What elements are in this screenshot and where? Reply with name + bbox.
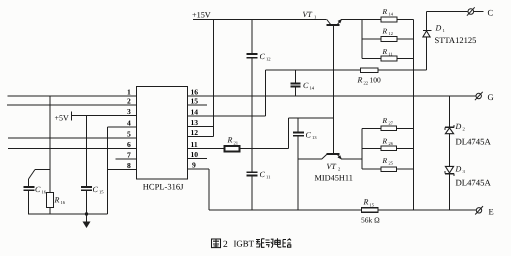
wire to VT bases [289, 117, 334, 119]
resistor R21 [225, 146, 240, 152]
svg-text:26: 26 [389, 141, 394, 146]
diode D3 triangle [445, 166, 453, 173]
wire right bracket vertical full [413, 20, 415, 211]
wire diagonal bend to C16 [29, 170, 36, 180]
svg-text:12: 12 [389, 31, 393, 36]
resistor R11 leads [362, 58, 381, 60]
glyph 图 [212, 239, 221, 248]
wire pin11 to R21 [188, 148, 225, 150]
svg-text:E: E [489, 206, 494, 216]
svg-text:STTA12125: STTA12125 [435, 35, 477, 45]
wire C16 top lead [28, 179, 30, 187]
glyph 路 [283, 239, 291, 247]
svg-text:DL4745A: DL4745A [456, 136, 492, 146]
svg-text:C: C [306, 131, 312, 140]
wire C14 bottom lead [295, 87, 297, 96]
capacitor C13 top lead [297, 118, 299, 132]
resistor R14 [381, 17, 397, 22]
capacitor C15 [81, 186, 92, 188]
svg-text:D: D [455, 165, 462, 174]
svg-text:13: 13 [191, 118, 199, 127]
svg-text:R: R [382, 7, 388, 16]
pin numbers left [127, 88, 131, 171]
resistor R27 [381, 126, 397, 131]
+5V supply tick [71, 112, 73, 121]
wire ground stub [86, 214, 88, 222]
wire R21 right lead [240, 148, 289, 150]
svg-text:R: R [382, 156, 388, 165]
svg-text:R: R [357, 76, 363, 85]
wire vertical pin4 down to ground rail [107, 127, 109, 214]
wire resistor R16 bottom lead [49, 208, 51, 215]
svg-text:12: 12 [266, 57, 271, 62]
svg-text:27: 27 [389, 121, 394, 126]
svg-text:6: 6 [127, 140, 131, 149]
caption 图2 IGBT 驱动电路 [212, 239, 221, 248]
resistor R25 leads [362, 168, 381, 170]
svg-text:22: 22 [364, 81, 369, 86]
wire ground rail bottom left [28, 213, 108, 215]
glyph 驱 [256, 239, 265, 248]
svg-text:1: 1 [314, 15, 317, 20]
svg-text:12: 12 [191, 128, 199, 137]
transistor Q1 VT1 diagonals and arrow [327, 20, 331, 25]
svg-text:R: R [382, 47, 388, 56]
resistor R16 [47, 193, 54, 208]
resistor R14 leads [362, 19, 381, 21]
wire C after terminal circle [474, 11, 484, 13]
svg-text:16: 16 [191, 88, 199, 97]
svg-text:DL4745A: DL4745A [456, 177, 492, 187]
wire pin9 [188, 168, 210, 170]
resistor R26 [381, 146, 397, 151]
wire corner up [288, 118, 290, 149]
svg-text:+5V: +5V [55, 113, 70, 122]
wire lower bank left bracket [361, 128, 363, 169]
svg-text:2: 2 [223, 240, 228, 250]
svg-text:C: C [303, 81, 309, 90]
wire bend horizontal to capacitor C16 [35, 169, 50, 171]
resistor R25 [381, 167, 397, 172]
svg-text:7: 7 [127, 151, 131, 160]
resistor R15 56k [362, 208, 379, 213]
svg-text:R: R [54, 196, 60, 205]
svg-text:2: 2 [463, 127, 466, 132]
resistor R12 leads [362, 38, 381, 40]
resistor R26 leads [362, 147, 381, 149]
wire VT1 emitter to top bank [341, 19, 362, 21]
terminal G circle and slash [476, 93, 481, 98]
svg-text:15: 15 [191, 97, 199, 106]
resistor R12 [381, 37, 397, 42]
svg-text:D: D [435, 24, 442, 33]
svg-text:MID45H11: MID45H11 [315, 174, 353, 183]
wire VT1 base / VT2 base vertical [333, 25, 335, 154]
svg-text:+15V: +15V [192, 11, 211, 20]
svg-text:11: 11 [266, 175, 271, 180]
wire D3 to emitter rail [449, 174, 451, 210]
svg-text:16: 16 [42, 190, 47, 195]
transistor Q2 VT2 base bar [327, 153, 340, 155]
svg-text:25: 25 [389, 161, 394, 166]
svg-text:3: 3 [463, 169, 466, 174]
svg-text:C: C [93, 185, 99, 194]
diode D3 cathode bar [445, 173, 454, 175]
capacitor C14 [291, 83, 301, 85]
diode D2 triangle [445, 128, 453, 134]
svg-text:5: 5 [127, 130, 131, 139]
wire C15 bottom lead [86, 191, 88, 214]
wire vertical rail to C12 [251, 20, 253, 54]
wire pin9 vertical [208, 169, 210, 210]
wire emitter rail right of R15 [378, 209, 477, 211]
wire input 1 [8, 95, 137, 97]
resistor R11 [381, 56, 397, 61]
svg-text:3: 3 [127, 107, 131, 116]
wire pin14 [188, 115, 266, 117]
wire DESAT vertical jog [265, 70, 267, 116]
wire pin16 / G line [188, 95, 477, 97]
terminal C circle and slash [468, 9, 474, 15]
svg-text:9: 9 [192, 161, 196, 170]
wire C16 bottom lead [28, 191, 30, 214]
capacitor C13 [293, 131, 304, 133]
wire input 2 [7, 104, 137, 106]
wire diode anode lead [426, 37, 428, 70]
svg-text:21: 21 [234, 141, 239, 146]
diagonal / curved parts [29, 7, 484, 228]
svg-text:IGBT: IGBT [234, 239, 255, 249]
wire pin3 from +5V [72, 115, 137, 117]
svg-text:R: R [227, 136, 233, 145]
svg-text:15: 15 [370, 203, 375, 208]
svg-text:8: 8 [127, 161, 131, 170]
svg-text:13: 13 [312, 135, 317, 140]
wire C11 bottom to emitter rail [251, 176, 253, 210]
glyph 动 [266, 239, 274, 247]
wire pin12 [188, 136, 214, 138]
svg-text:10: 10 [191, 150, 199, 159]
wire emitter rail left of R15 [209, 209, 362, 211]
svg-text:2: 2 [127, 97, 131, 106]
svg-text:16: 16 [61, 200, 66, 205]
wire diode to C line [426, 12, 428, 31]
capacitor C16 [24, 186, 35, 188]
wire top bank left bracket [361, 20, 363, 59]
svg-text:4: 4 [127, 119, 131, 128]
wire between zeners [449, 134, 451, 167]
wire vertical +5V rail down to C15 [86, 116, 88, 187]
wire C line [427, 11, 468, 13]
wire pin10 stub [188, 158, 208, 160]
wire C13 bottom lead to emitter rail [297, 136, 299, 210]
resistor R27 leads [362, 127, 381, 129]
svg-text:C: C [260, 52, 266, 61]
svg-text:11: 11 [191, 140, 198, 149]
svg-text:R: R [382, 116, 388, 125]
wire pin13 [188, 126, 214, 128]
transistor Q2 VT2 diagonals and arrow [322, 154, 327, 159]
wire pin15 stub [188, 104, 208, 106]
wire pin7 stub [116, 158, 137, 160]
svg-text:15: 15 [99, 190, 104, 195]
diode D1 triangle [423, 31, 430, 37]
svg-text:C: C [260, 170, 266, 179]
wire VT2 emitter to lower bank [341, 158, 362, 160]
svg-text:G: G [488, 92, 494, 102]
resistor R22 100 [361, 68, 379, 73]
svg-text:14: 14 [191, 108, 199, 117]
svg-text:R: R [382, 27, 388, 36]
wire input 5 [8, 137, 137, 139]
wire zener chain from G line [449, 96, 451, 127]
svg-text:100: 100 [370, 76, 382, 85]
svg-text:C: C [488, 7, 494, 17]
glyph 电 [275, 238, 282, 247]
wire R22 to diode corner [378, 69, 427, 71]
capacitor C14 top lead [295, 70, 297, 83]
wire bracket vertical +15V to pin12 [213, 20, 215, 137]
svg-text:C: C [35, 185, 41, 194]
transistor Q1 VT1 base bar [327, 24, 340, 26]
svg-text:VT: VT [327, 162, 337, 171]
svg-text:56k Ω: 56k Ω [361, 216, 380, 225]
wire pin8 [108, 169, 137, 171]
wire +15V rail [193, 19, 327, 21]
svg-text:14: 14 [310, 86, 315, 91]
wire pin4 [108, 126, 137, 128]
svg-text:R: R [363, 198, 369, 207]
svg-text:VT: VT [303, 10, 313, 19]
node ground junction [85, 212, 88, 215]
svg-text:1: 1 [443, 28, 446, 33]
diode D1 cathode bar [423, 30, 432, 32]
capacitor C12 [247, 53, 258, 55]
svg-text:2: 2 [338, 167, 341, 172]
wire DESAT line left [266, 69, 361, 71]
svg-text:14: 14 [389, 12, 394, 17]
terminal E circle and slash [476, 208, 481, 213]
svg-text:HCPL-316J: HCPL-316J [143, 182, 184, 192]
ground symbol arrow [83, 222, 91, 229]
capacitor C11 [247, 171, 258, 173]
op-amp U1 HCPL-316J body [137, 87, 188, 180]
svg-text:D: D [455, 122, 462, 131]
wire vertical from input1 down to R16 [49, 96, 51, 193]
wire input 6 [8, 148, 137, 150]
diode D2 cathode bar [445, 126, 454, 128]
svg-text:11: 11 [389, 52, 393, 57]
wire VT2 collector to C13 vertical [298, 158, 322, 160]
wire C12 bottom down to C11 [251, 58, 253, 171]
svg-text:1: 1 [127, 88, 131, 97]
pin numbers right [191, 88, 199, 170]
svg-text:R: R [382, 137, 388, 146]
